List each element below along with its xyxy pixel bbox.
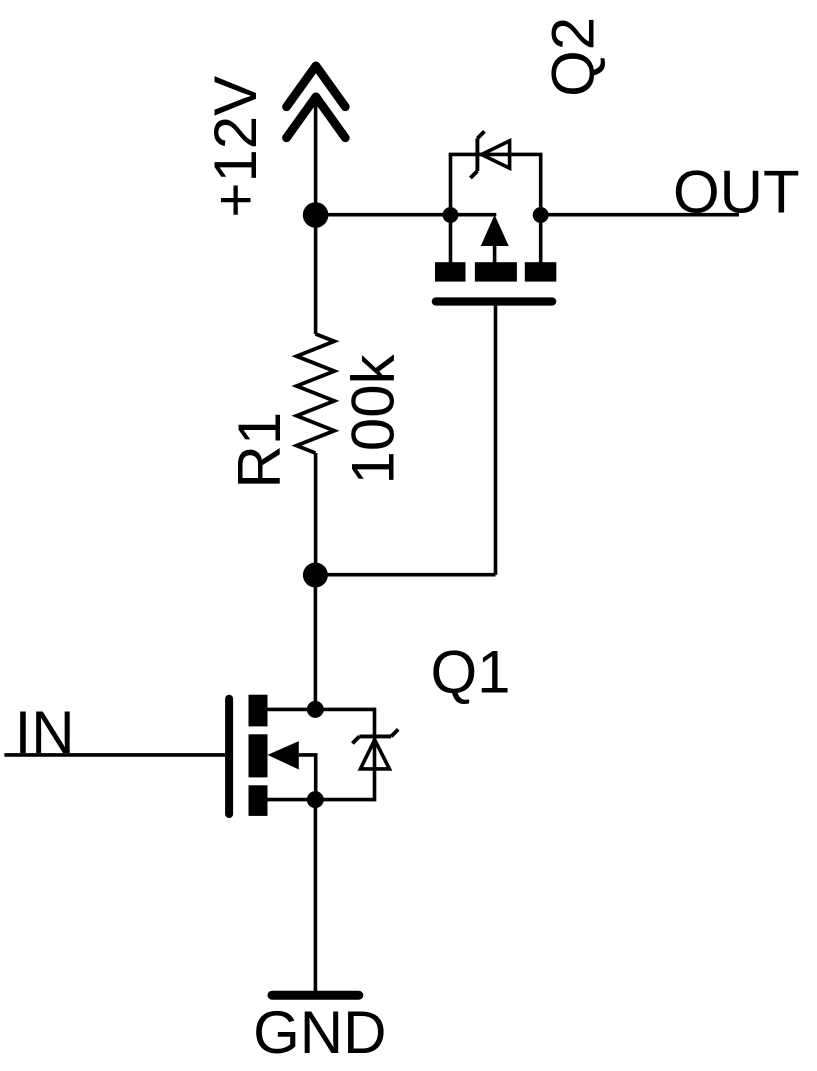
Q1 body diode branch wire bbox=[373, 708, 377, 802]
wire: top rail, node A to Q2 body arrow apex bbox=[316, 213, 497, 217]
Q2 body arrow bbox=[481, 215, 509, 246]
wire: node B down to Q1 drain bbox=[314, 575, 318, 709]
Q1 body diode triangle bbox=[360, 740, 389, 769]
Q1 middle channel pad (body) bbox=[249, 734, 268, 777]
node A junction dot bbox=[303, 202, 329, 228]
Q2 body diode loop: right stub bbox=[539, 154, 543, 215]
Q2 body diode loop: left stub bbox=[449, 154, 453, 215]
wire: node B to Q2 gate (horizontal) bbox=[315, 573, 495, 577]
svg-text:R1: R1 bbox=[226, 412, 293, 489]
power symbol +12V arrow bbox=[287, 66, 346, 138]
Q1 gate wire from IN bbox=[4, 753, 225, 757]
svg-text:GND: GND bbox=[253, 999, 386, 1066]
Q2 left channel pad bbox=[435, 262, 466, 281]
Q1 bottom channel pad (source) bbox=[249, 785, 268, 816]
Q1 drain junction dot bbox=[307, 701, 324, 718]
Q2 left pin stub bbox=[449, 215, 453, 263]
ground bar bbox=[272, 991, 359, 1000]
Q1 body wire bbox=[299, 755, 316, 800]
svg-text:+12V: +12V bbox=[202, 76, 269, 218]
Q1 source wire bbox=[268, 798, 375, 802]
Q2 right channel pad bbox=[525, 262, 557, 281]
Q2 body diode cathode bar (zener) bbox=[470, 131, 484, 178]
resistor R1 zigzag bbox=[297, 334, 335, 453]
Q1 body arrow bbox=[268, 741, 299, 769]
Q2 left pin dot bbox=[443, 207, 459, 223]
node B junction dot bbox=[303, 563, 328, 588]
Q1 source junction dot bbox=[307, 791, 324, 808]
svg-text:Q1: Q1 bbox=[431, 639, 511, 706]
Q2 right pin dot bbox=[533, 207, 549, 223]
Q1 top channel pad (drain) bbox=[249, 695, 268, 727]
wire: node A to R1 top bbox=[314, 215, 318, 334]
transistor Q1 (N-MOSFET) bbox=[4, 695, 398, 816]
svg-text:100k: 100k bbox=[340, 353, 407, 484]
svg-text:Q2: Q2 bbox=[540, 17, 607, 97]
svg-text:OUT: OUT bbox=[673, 159, 800, 226]
svg-text:IN: IN bbox=[15, 699, 75, 766]
Q2 gate bar bbox=[436, 297, 552, 305]
Q2 body diode triangle bbox=[482, 141, 510, 168]
transistor Q2 (P-MOSFET, rotated, gate down) bbox=[435, 131, 556, 574]
Q2 gate wire down bbox=[494, 302, 498, 575]
Q1 body diode cathode bar (zener) bbox=[352, 729, 398, 743]
Q2 middle channel pad bbox=[475, 262, 517, 281]
Q2 body diode wire bbox=[449, 153, 543, 157]
wire: Q1 source to GND bbox=[314, 800, 318, 995]
Q1 drain wire bbox=[268, 708, 375, 712]
wire: Q2 right pin to OUT bbox=[541, 213, 739, 217]
Q1 gate bar bbox=[225, 699, 233, 814]
wire: R1 bottom to node B bbox=[314, 453, 318, 575]
Q2 right pin stub bbox=[539, 215, 543, 263]
wire: power arrow to node A bbox=[314, 96, 318, 215]
